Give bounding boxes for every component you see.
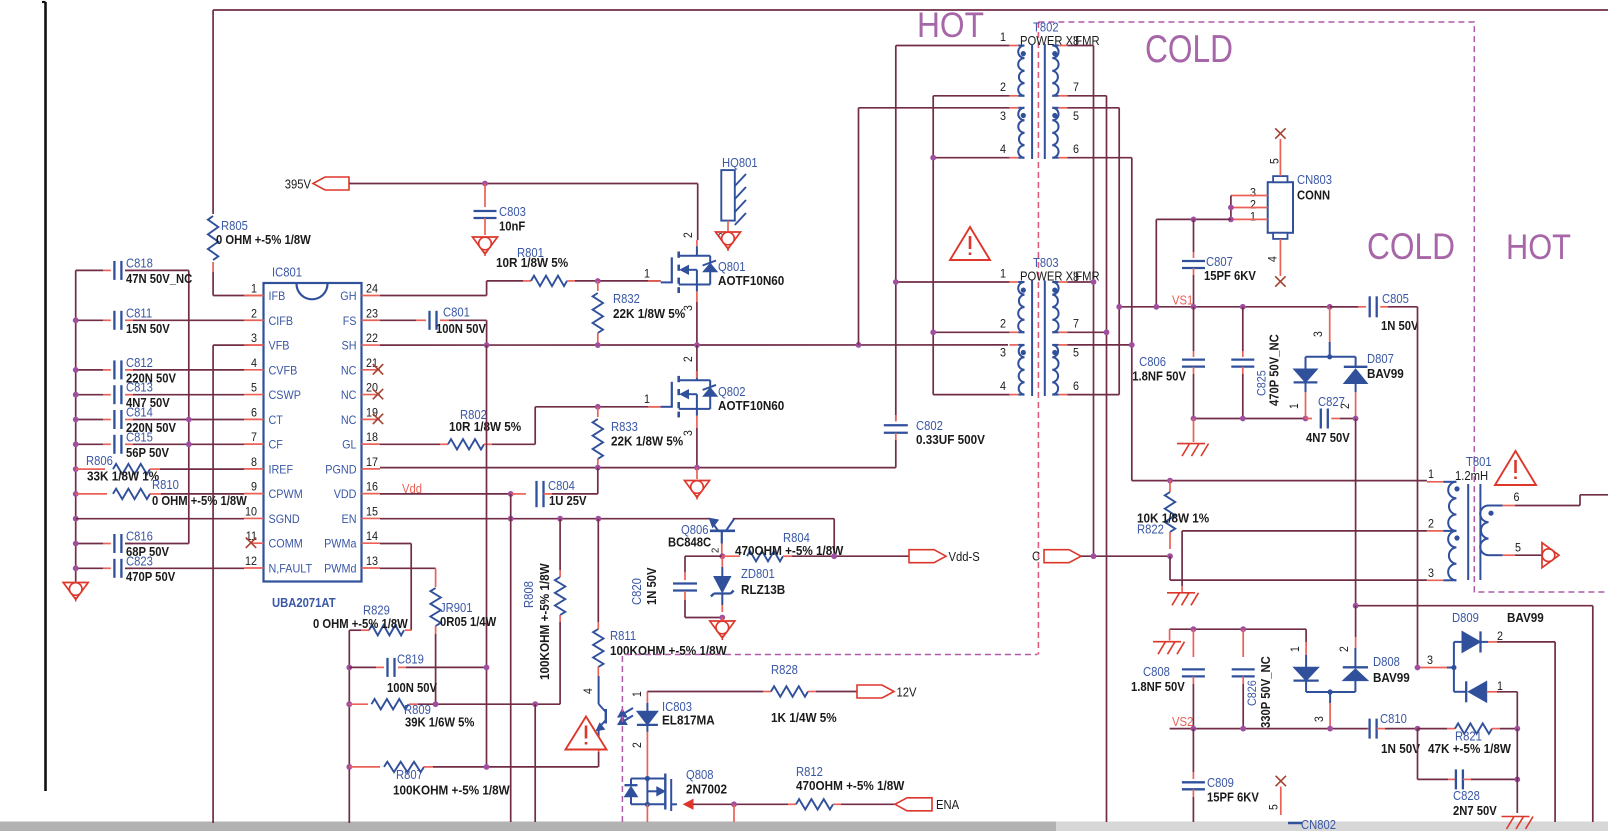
svg-text:1: 1	[1497, 679, 1503, 693]
svg-text:VFB: VFB	[269, 339, 290, 353]
capacitor C814	[76, 406, 177, 436]
wire PWMd pin13 row	[380, 567, 436, 569]
wire Q808 source stub down	[646, 804, 648, 822]
wire x858 vertical pin3 to SH	[858, 108, 860, 345]
dashed isolation boundary top	[1038, 22, 1608, 592]
svg-text:14: 14	[366, 529, 378, 543]
warning triangle near IC803	[566, 717, 607, 750]
svg-text:6: 6	[251, 405, 257, 419]
svg-text:16: 16	[366, 480, 378, 494]
optocoupler IC803 LED	[632, 691, 715, 777]
resistor R805	[208, 216, 218, 260]
ground at PGND	[685, 481, 710, 498]
node top-rail/C826 junction	[1240, 626, 1246, 632]
svg-text:NC: NC	[341, 413, 357, 427]
svg-text:CONN: CONN	[1297, 189, 1330, 203]
wire ZD801 ground stub	[721, 618, 723, 621]
wire x510 vertical to bottom	[510, 494, 512, 822]
net arrow 395V	[313, 177, 349, 190]
node R809/JR901 junction	[433, 701, 439, 707]
svg-text:HOT: HOT	[1506, 228, 1571, 267]
svg-text:2: 2	[710, 548, 722, 553]
node PGND/R833 junction	[595, 465, 601, 471]
svg-text:1: 1	[644, 392, 650, 406]
node C815/rail junction	[186, 441, 192, 447]
wire T802 pin1 to left vertical	[896, 45, 1010, 47]
resistor R822	[1169, 481, 1171, 492]
svg-text:5: 5	[251, 381, 257, 395]
wire x1093 vertical pin8 to C-row	[1093, 46, 1095, 557]
resistor R802	[380, 443, 440, 445]
svg-text:BAV99: BAV99	[1367, 366, 1404, 381]
svg-text:47K +-5% 1/8W: 47K +-5% 1/8W	[1428, 741, 1512, 756]
svg-text:7: 7	[251, 430, 257, 444]
svg-text:BAV99: BAV99	[1373, 670, 1410, 685]
wire T802 pin2 to left vertical	[933, 95, 1009, 97]
wire C801 down to SH	[486, 320, 488, 345]
red gate flow arrow	[684, 800, 693, 810]
wire T803 pin8 row	[1067, 281, 1093, 283]
svg-text:T801: T801	[1466, 455, 1492, 469]
connector CN803	[1231, 173, 1332, 239]
wire CN803 to VS1 corner	[1156, 218, 1231, 220]
svg-text:8: 8	[251, 455, 257, 469]
node C810/x1417 junction	[1415, 726, 1421, 732]
resistor R811 vertical	[597, 519, 599, 622]
resistor R809	[346, 701, 352, 707]
svg-text:24: 24	[366, 282, 378, 296]
svg-text:CVFB: CVFB	[269, 363, 298, 377]
wire PWMa pin14 row	[380, 543, 411, 545]
wire C820 top branch	[685, 555, 722, 557]
svg-text:1N 50V: 1N 50V	[1381, 319, 1419, 333]
svg-text:EL817MA: EL817MA	[662, 713, 715, 728]
capacitor C812	[76, 356, 177, 386]
ground-right symbol at T801 pin5	[1542, 543, 1559, 568]
capacitor C802	[895, 415, 897, 422]
svg-text:RLZ13B: RLZ13B	[741, 582, 785, 597]
wire rail to chassis ground	[1169, 629, 1171, 640]
svg-text:C814: C814	[126, 406, 153, 420]
svg-text:NC: NC	[341, 388, 357, 402]
svg-text:R807: R807	[396, 768, 423, 782]
wire C811 row to pin2	[133, 319, 244, 321]
svg-text:10R 1/8W 5%: 10R 1/8W 5%	[496, 255, 569, 270]
svg-text:ZD801: ZD801	[741, 567, 775, 581]
svg-text:1U 25V: 1U 25V	[549, 494, 587, 508]
svg-text:0 OHM +-5% 1/8W: 0 OHM +-5% 1/8W	[216, 233, 311, 247]
connector CN803 pin5 stub with X	[1279, 139, 1281, 176]
node x1417/D809-pin3 junction	[1415, 665, 1421, 671]
ground at left bus	[63, 583, 88, 600]
wire PGND ground stub	[696, 468, 698, 479]
svg-text:2: 2	[1497, 629, 1503, 643]
warning triangle near T801	[1495, 451, 1536, 485]
wire GH pin24 to step	[380, 295, 487, 297]
capacitor C820	[684, 556, 686, 572]
svg-text:15: 15	[366, 504, 378, 518]
wire T801 pin1 row	[1132, 480, 1427, 482]
svg-text:10nF: 10nF	[499, 220, 526, 234]
svg-text:2: 2	[1339, 646, 1351, 652]
svg-text:3: 3	[251, 331, 257, 345]
wire C812 row to pin4	[133, 369, 244, 371]
capacitor C827	[1306, 418, 1313, 420]
svg-text:C823: C823	[126, 554, 153, 568]
svg-text:7: 7	[1073, 80, 1079, 94]
wire rail ground stub	[1193, 419, 1195, 443]
svg-text:COLD: COLD	[1145, 28, 1233, 71]
wire Q801 source to SH	[696, 292, 698, 303]
svg-text:C825: C825	[1255, 370, 1269, 396]
svg-text:Q802: Q802	[718, 385, 746, 399]
svg-text:C: C	[1032, 550, 1040, 564]
node VS1/T802-pin5 junction	[1116, 304, 1122, 310]
wire x1131 vertical pin6 to T801 row	[1131, 158, 1133, 481]
node C827/D807-pin2 junction	[1353, 416, 1359, 422]
dashed isolation boundary around IC803	[622, 655, 1037, 823]
connector CN802 partial symbol	[1288, 822, 1302, 825]
node rail/x1356 junction	[1353, 603, 1359, 609]
capacitor C801	[380, 319, 416, 321]
node T803-pin2/x933 junction	[930, 329, 936, 335]
capacitor C807	[1193, 219, 1195, 252]
wire x933 vertical	[932, 96, 934, 395]
node gate-row/R833 junction	[595, 404, 601, 410]
transformer T802 right winding	[1052, 34, 1079, 158]
svg-text:C808: C808	[1143, 665, 1170, 679]
ground at HQ801	[716, 232, 741, 249]
svg-text:6: 6	[1073, 379, 1079, 393]
svg-text:3: 3	[683, 430, 695, 436]
wire T802 pin4 row	[933, 157, 1009, 159]
node VS2/C826 junction	[1240, 726, 1246, 732]
svg-text:1: 1	[251, 282, 257, 296]
wire Q802 drain to SH	[696, 345, 698, 371]
svg-text:C811: C811	[126, 306, 152, 320]
svg-text:1: 1	[632, 691, 644, 697]
transformer T803 right winding	[1052, 270, 1079, 395]
node CN803 pin2 junction	[1228, 205, 1234, 211]
svg-text:CN803: CN803	[1297, 173, 1332, 187]
node pin4/x933 junction	[930, 155, 936, 161]
svg-text:BC848C: BC848C	[668, 536, 711, 550]
svg-text:12V: 12V	[897, 686, 918, 700]
svg-text:Q808: Q808	[686, 768, 714, 782]
svg-text:100KOHM +-5% 1/8W: 100KOHM +-5% 1/8W	[537, 563, 552, 680]
wire Q802 source to PGND	[696, 416, 698, 428]
wire R802 step up to gate row	[534, 407, 536, 445]
capacitor C819	[346, 665, 352, 671]
svg-text:R811: R811	[610, 629, 636, 643]
wire C816 to rail	[125, 543, 189, 545]
svg-text:4: 4	[583, 688, 595, 694]
wire C804 up to PGND	[597, 468, 599, 494]
resistor R832	[597, 281, 599, 291]
wire x1106 vertical pin7 to bottom	[1106, 96, 1108, 822]
node EN/R811 junction	[595, 516, 601, 522]
svg-text:1: 1	[1000, 30, 1006, 44]
wire T802 pin3 to left vertical	[859, 107, 1010, 109]
transformer T803 left winding	[1000, 256, 1100, 395]
ground at ZD801	[710, 621, 735, 638]
svg-text:1.8NF 50V: 1.8NF 50V	[1131, 680, 1185, 694]
wire D809 rail y605.7	[1356, 605, 1593, 607]
wire x896 vertical pin1 to C802	[895, 46, 897, 421]
wire VDD pin16 row	[380, 493, 511, 495]
svg-text:3: 3	[1314, 716, 1326, 722]
svg-text:CIFB: CIFB	[269, 314, 294, 328]
svg-text:C807: C807	[1206, 255, 1233, 269]
svg-text:BAV99: BAV99	[1507, 610, 1544, 625]
node EN/x510 junction	[508, 516, 514, 522]
svg-text:470OHM +-5% 1/8W: 470OHM +-5% 1/8W	[735, 543, 844, 558]
svg-text:7: 7	[1073, 317, 1079, 331]
capacitor C828	[1417, 729, 1419, 780]
capacitor C813	[76, 381, 171, 411]
svg-text:4: 4	[251, 356, 257, 370]
svg-text:COMM: COMM	[269, 537, 303, 551]
resistor R810	[76, 493, 107, 495]
svg-text:T802: T802	[1033, 21, 1059, 35]
svg-text:3: 3	[1000, 346, 1006, 360]
svg-text:4: 4	[1000, 142, 1006, 156]
wire T803 pin5 row	[1067, 344, 1131, 346]
wire Q801 drain drop	[697, 184, 699, 241]
svg-text:0R05 1/4W: 0R05 1/4W	[440, 615, 496, 629]
wire gate row to R812	[693, 803, 788, 805]
ground at C803	[473, 237, 498, 254]
svg-text:395V: 395V	[285, 177, 312, 191]
svg-text:2: 2	[683, 232, 695, 238]
svg-text:100N 50V: 100N 50V	[436, 322, 487, 336]
capacitor C823	[76, 554, 176, 584]
svg-text:18: 18	[366, 430, 378, 444]
chassis ground below C806	[1177, 443, 1205, 445]
chassis ground near C808	[1153, 641, 1181, 643]
svg-text:2N7 50V: 2N7 50V	[1453, 804, 1497, 818]
wire R829 left down to C819 row	[348, 630, 350, 823]
svg-text:R828: R828	[771, 663, 798, 677]
transformer T801 core	[1467, 484, 1469, 580]
svg-text:C826: C826	[1245, 680, 1259, 706]
wire C815 row to pin7	[133, 443, 244, 445]
svg-text:GL: GL	[342, 438, 357, 452]
wire D809-pin2 vertical to bottom	[1554, 642, 1556, 822]
transformer T801 secondary	[1480, 490, 1521, 555]
node C807 top junction	[1191, 217, 1197, 223]
svg-text:EN: EN	[342, 512, 357, 526]
capacitor C825	[1242, 307, 1244, 351]
svg-text:IFB: IFB	[269, 289, 286, 303]
node C-row/x1093 junction	[1091, 553, 1097, 559]
wire x1517 down to chassis ground	[1516, 729, 1518, 780]
svg-text:3: 3	[1000, 109, 1006, 123]
svg-text:1: 1	[1290, 646, 1302, 652]
wire D809 pin3 row	[1418, 667, 1448, 669]
wire C806/C825 bottom rail	[1194, 418, 1306, 420]
svg-text:1: 1	[1289, 403, 1301, 409]
wire R805 top segment	[212, 10, 214, 214]
node SH/R832 junction	[595, 342, 601, 348]
svg-text:C820: C820	[630, 578, 644, 605]
wire T803 pin7 row	[1067, 331, 1106, 333]
resistor R807	[346, 764, 352, 770]
resistor R806	[76, 468, 105, 470]
node R801/R832/gate junction	[595, 278, 601, 284]
wire EN pin15 row	[380, 518, 710, 520]
node rail/C825 junction	[1240, 416, 1246, 422]
svg-text:C828: C828	[1453, 789, 1480, 803]
connector CN803 pin4 stub with X	[1279, 239, 1281, 276]
svg-text:SH: SH	[342, 339, 357, 353]
svg-text:R806: R806	[86, 454, 113, 468]
svg-text:C816: C816	[126, 530, 153, 544]
svg-text:N,FAULT: N,FAULT	[269, 561, 313, 575]
wire C820 bottom to ZD801	[685, 617, 722, 619]
svg-text:C819: C819	[397, 653, 424, 667]
svg-text:1: 1	[1428, 467, 1434, 481]
svg-text:R833: R833	[611, 420, 638, 434]
net arrow Vdd-S	[909, 550, 946, 563]
svg-text:22K 1/8W 5%: 22K 1/8W 5%	[613, 306, 686, 321]
wire x1119 vertical pin5 to T803 pin6	[1118, 108, 1120, 395]
IC IC801 UBA2071AT body	[264, 283, 362, 582]
resistor R812	[788, 803, 796, 805]
node VS2/C808 junction	[1191, 726, 1197, 732]
node EN/R808 junction	[557, 516, 563, 522]
wire PGND bus pin17 row	[380, 467, 896, 469]
page left border line	[44, 2, 47, 791]
wire C813 row to pin5	[133, 394, 244, 396]
jumper resistor JR901	[435, 568, 437, 587]
svg-text:3: 3	[683, 305, 695, 311]
node PGND/Q802-source junction	[694, 465, 700, 471]
zener diode ZD801 RLZ13B	[721, 556, 723, 567]
svg-text:56P 50V: 56P 50V	[126, 446, 170, 460]
svg-text:VS1: VS1	[1172, 294, 1193, 308]
IC801 left pin names and numbers	[244, 282, 313, 576]
node top-rail/C808 junction	[1191, 626, 1197, 632]
svg-text:5: 5	[1270, 158, 1282, 164]
wire C823 row to pin12	[125, 567, 244, 569]
capacitor C803	[484, 184, 486, 208]
svg-text:C809: C809	[1207, 776, 1234, 790]
node C828/x1517 junction	[1514, 777, 1520, 783]
svg-text:CSWP: CSWP	[269, 388, 301, 402]
svg-text:C803: C803	[499, 205, 526, 219]
wire SH bus pin22 row	[380, 344, 1008, 346]
svg-text:C827: C827	[1318, 395, 1345, 409]
transformer T801 primary	[1427, 455, 1492, 580]
svg-text:470P 50V: 470P 50V	[126, 570, 176, 584]
svg-text:1K 1/4W 5%: 1K 1/4W 5%	[771, 710, 837, 725]
node CN803 pin1 junction	[1228, 217, 1234, 223]
node T803-pin1/x896 junction	[893, 279, 899, 285]
scrollbar track bottom	[0, 822, 1608, 831]
wire step to R801	[487, 280, 523, 282]
svg-text:6: 6	[1514, 490, 1520, 504]
wire left bus vertical	[75, 270, 77, 581]
chassis ground below T801 pin2	[1167, 592, 1195, 594]
svg-text:IREF: IREF	[269, 462, 294, 476]
svg-text:3: 3	[1313, 331, 1325, 337]
wire T803 pin4 row	[933, 394, 1009, 396]
node SH/T802-pin3 junction	[856, 342, 862, 348]
svg-text:330P 50V_NC: 330P 50V_NC	[1259, 656, 1273, 728]
wire C818 rail x188.8	[188, 270, 190, 543]
capacitor C815	[76, 430, 170, 460]
node R821/D809-pin1 junction	[1514, 726, 1520, 732]
wire x1417 vertical C805 to D809 node	[1417, 307, 1419, 668]
IC801 NC pins no-connect X marks	[373, 364, 383, 374]
node VS1/C806 junction	[1191, 304, 1197, 310]
svg-text:C815: C815	[126, 430, 153, 444]
wire C814 row to pin6	[133, 419, 244, 421]
svg-text:15PF 6KV: 15PF 6KV	[1204, 269, 1256, 283]
transistor Q802 AOTF10N60	[672, 356, 785, 436]
svg-text:COLD: COLD	[1367, 226, 1455, 267]
svg-text:4N7 50V: 4N7 50V	[1306, 431, 1350, 445]
svg-text:C806: C806	[1139, 355, 1166, 369]
wire T801 pin2 row	[1182, 530, 1427, 532]
svg-text:GH: GH	[340, 289, 356, 303]
svg-text:HOT: HOT	[917, 6, 984, 45]
svg-text:R829: R829	[363, 604, 390, 618]
svg-text:9: 9	[251, 480, 257, 494]
svg-text:470OHM +-5% 1/8W: 470OHM +-5% 1/8W	[796, 778, 905, 793]
net arrow 12V	[857, 685, 894, 698]
wire T801 pin6 to right edge	[1515, 505, 1580, 507]
node C-row/R822 junction	[1167, 553, 1173, 559]
node T803-pin8/x1093 junction	[1091, 279, 1097, 285]
svg-text:12: 12	[245, 554, 257, 568]
resistor R804	[722, 555, 740, 557]
svg-text:47N 50V_NC: 47N 50V_NC	[126, 272, 192, 286]
svg-text:22K 1/8W 5%: 22K 1/8W 5%	[611, 434, 684, 449]
svg-text:1.8NF 50V: 1.8NF 50V	[1132, 370, 1186, 384]
wire HQ801 to ground	[727, 221, 729, 231]
svg-text:C804: C804	[548, 479, 575, 493]
svg-text:100N 50V: 100N 50V	[387, 681, 438, 695]
svg-text:1N 50V: 1N 50V	[645, 567, 659, 605]
node VS1/D807 junction	[1327, 304, 1333, 310]
node 395V/C803 junction	[482, 181, 488, 187]
left bus junction dots	[73, 317, 79, 571]
svg-text:CF: CF	[269, 438, 283, 452]
node R804/collector junction	[831, 553, 837, 559]
svg-text:R812: R812	[796, 765, 823, 779]
wire D809-pin1 vertical to R821	[1516, 692, 1518, 729]
node VS2/D808-pin3 junction	[1327, 726, 1333, 732]
wire D808 pin2 drop	[1355, 606, 1357, 637]
svg-text:1: 1	[1000, 267, 1006, 281]
capacitor C809	[1192, 729, 1194, 772]
IC801 pin11 COMM no-connect X	[252, 542, 264, 544]
wire 395V row	[349, 183, 698, 185]
svg-text:HQ801: HQ801	[722, 156, 758, 170]
svg-text:15PF 6KV: 15PF 6KV	[1207, 791, 1259, 805]
svg-text:3: 3	[1428, 566, 1434, 580]
wire T801 pin5 to symbol	[1515, 554, 1542, 556]
dashed isolation boundary vertical through T802/T803	[1037, 22, 1039, 655]
svg-text:R808: R808	[522, 581, 536, 608]
wire T802 pin5 to right vertical	[1067, 107, 1119, 109]
svg-text:5: 5	[1269, 804, 1281, 810]
svg-text:C813: C813	[126, 381, 153, 395]
capacitor C810	[1368, 728, 1370, 730]
svg-text:D809: D809	[1452, 611, 1479, 625]
